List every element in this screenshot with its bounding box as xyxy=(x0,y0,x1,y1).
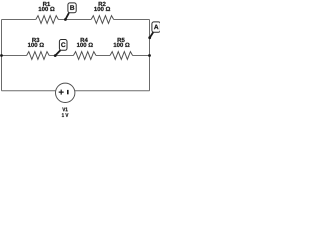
R5 zigzag body xyxy=(110,52,133,60)
value 1 V xyxy=(62,113,68,117)
node C junction dot on wire xyxy=(54,54,57,57)
V1 plus terminal mark xyxy=(59,90,64,95)
node A junction dot on wire xyxy=(148,36,151,39)
value 100 Ω of R1 xyxy=(39,7,55,11)
resistor R3 xyxy=(27,38,50,60)
label R1 xyxy=(43,2,50,6)
wire: right rail xyxy=(149,20,151,91)
R1 zigzag body xyxy=(36,16,59,24)
node C label box xyxy=(59,40,67,51)
junction: middle rail to left rail xyxy=(0,54,3,57)
wire: top rail left segment xyxy=(2,19,36,21)
wire: middle rail segment 4 xyxy=(133,55,150,57)
R2 zigzag body xyxy=(91,16,114,24)
label R3 xyxy=(32,38,39,42)
resistor R5 xyxy=(110,38,133,60)
label R5 xyxy=(118,38,125,42)
wire: top rail middle segment node B xyxy=(58,19,91,21)
V1 source circle xyxy=(55,83,74,102)
value 100 Ω of R2 xyxy=(94,7,110,11)
node C xyxy=(54,40,67,57)
wire: middle rail segment 3 xyxy=(96,55,110,57)
R3 zigzag body xyxy=(27,52,50,60)
V1 minus terminal mark xyxy=(67,90,69,94)
label V1 xyxy=(62,108,67,112)
R4 zigzag body xyxy=(73,52,96,60)
resistor R2 xyxy=(91,2,114,24)
resistor R1 xyxy=(36,2,59,24)
resistor R4 xyxy=(73,38,96,60)
junction: middle rail to right rail xyxy=(148,54,151,57)
wire: left rail xyxy=(1,20,3,91)
node A label box xyxy=(152,22,161,32)
value 100 Ω of R3 xyxy=(28,43,44,47)
wire: bottom rail left segment xyxy=(2,90,56,92)
node A letter xyxy=(154,25,158,30)
node C letter xyxy=(61,42,65,47)
node B xyxy=(64,3,76,21)
node B leader line xyxy=(65,13,69,20)
node B letter xyxy=(70,5,74,10)
node B label box xyxy=(68,3,76,13)
value 100 Ω of R5 xyxy=(114,43,130,47)
voltage source V1 xyxy=(55,83,74,117)
wire: middle rail segment 1 xyxy=(2,55,27,57)
node A leader line xyxy=(150,32,154,37)
wire: middle rail segment 2 node C xyxy=(49,55,73,57)
label R2 xyxy=(99,2,106,6)
value 100 Ω of R4 xyxy=(77,43,93,47)
node B junction dot on wire xyxy=(64,18,67,21)
label R4 xyxy=(81,38,88,42)
wire: bottom rail right segment xyxy=(75,90,150,92)
wire: top rail right segment xyxy=(114,19,150,21)
node A xyxy=(148,22,160,39)
node C leader line xyxy=(55,50,60,55)
